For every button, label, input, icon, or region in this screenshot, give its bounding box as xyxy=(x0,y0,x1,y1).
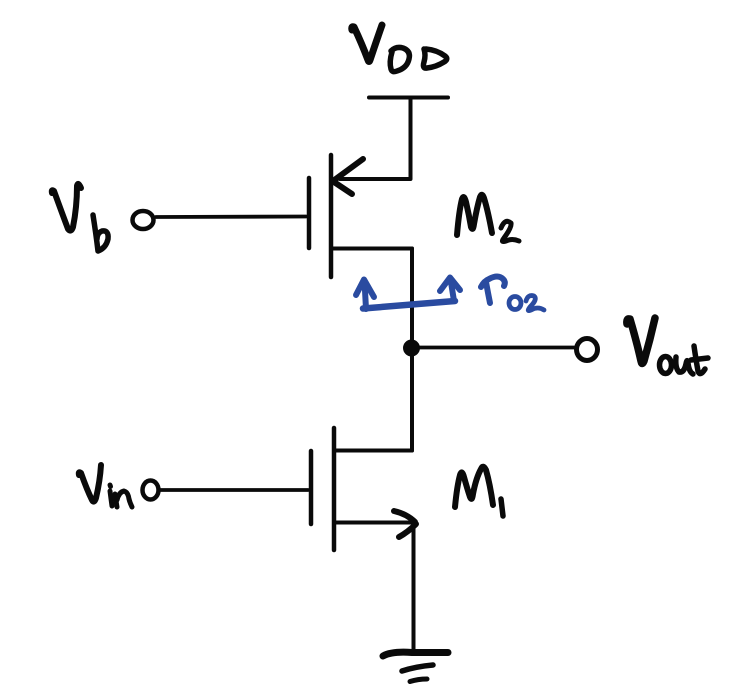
label Vin xyxy=(79,465,132,507)
wire drain vertical to node xyxy=(410,249,414,451)
wire M1 drain xyxy=(334,449,412,453)
transistor M1 channel bar xyxy=(332,428,337,550)
transistor M2 channel bar xyxy=(329,155,334,277)
wire Vb to gate xyxy=(156,215,306,219)
transistor M1 gate bar xyxy=(309,451,314,524)
transistor M2 source arrow xyxy=(333,159,363,194)
label ro2 (blue) xyxy=(481,277,544,311)
annotation ro2 strike (blue) xyxy=(356,278,460,310)
label M2 xyxy=(457,195,519,242)
terminal Vb xyxy=(133,211,154,229)
wire source to ground xyxy=(412,527,416,653)
label VDD xyxy=(352,25,447,72)
wire Vin to gate xyxy=(160,488,308,492)
label M1 xyxy=(455,467,503,516)
ground bar 3 xyxy=(410,679,427,682)
wire node to Vout xyxy=(411,346,574,350)
transistor M1 source arrow xyxy=(394,511,416,537)
terminal Vout xyxy=(577,339,598,361)
ground bar 2 xyxy=(402,665,433,671)
VDD supply bar xyxy=(369,96,448,100)
wire M2 drain xyxy=(331,247,412,251)
wire M1 source with arrow xyxy=(334,521,411,525)
wire VDD to M2 source xyxy=(340,98,411,180)
ground bar 1 xyxy=(383,652,448,656)
label Vout xyxy=(627,318,708,374)
terminal Vin xyxy=(143,481,159,500)
transistor M2 gate bar xyxy=(307,178,312,248)
node output junction xyxy=(403,340,420,357)
label Vb xyxy=(52,184,108,251)
